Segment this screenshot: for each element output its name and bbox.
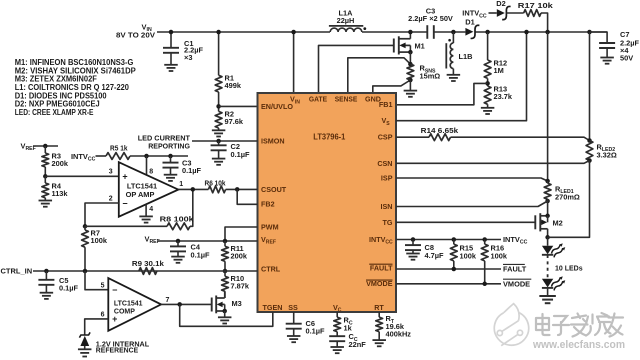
svg-text:6: 6 [101, 311, 105, 318]
svg-text:+: + [122, 172, 127, 182]
svg-text:INTVCC: INTVCC [503, 235, 528, 246]
svg-text:R14 6.65k: R14 6.65k [421, 126, 459, 135]
svg-text:R17 10k: R17 10k [518, 1, 554, 10]
svg-text:VREF: VREF [21, 142, 36, 153]
svg-text:100k: 100k [491, 251, 508, 260]
svg-text:0.1µF: 0.1µF [231, 150, 251, 159]
svg-text:15mΩ: 15mΩ [420, 72, 441, 81]
svg-text:EN/UVLO: EN/UVLO [261, 102, 293, 111]
svg-text:CSP: CSP [378, 133, 393, 142]
svg-text:2: 2 [109, 196, 113, 203]
svg-text:ISN: ISN [381, 202, 393, 211]
svg-text:2.2µF ×2 50V: 2.2µF ×2 50V [408, 14, 453, 23]
svg-text:VREF: VREF [145, 234, 160, 245]
svg-text:0.1µF: 0.1µF [182, 166, 202, 175]
svg-text:1: 1 [179, 181, 183, 188]
svg-text:100k: 100k [460, 251, 477, 260]
svg-text:R8 100k: R8 100k [160, 214, 195, 223]
svg-text:FAULT: FAULT [370, 264, 393, 273]
svg-text:GATE: GATE [309, 95, 327, 104]
svg-text:LED: CREE XLAMP XR-E: LED: CREE XLAMP XR-E [15, 108, 94, 117]
svg-text:REPORTING: REPORTING [148, 141, 190, 150]
svg-text:4: 4 [149, 206, 153, 213]
svg-text:3.32Ω: 3.32Ω [597, 150, 617, 159]
svg-text:10 LEDs: 10 LEDs [555, 266, 583, 273]
svg-text:OP AMP: OP AMP [126, 190, 155, 199]
svg-text:PWM: PWM [261, 222, 279, 231]
svg-text:www.elecfans.com: www.elecfans.com [532, 339, 625, 351]
svg-text:M2: M2 [553, 218, 563, 227]
svg-text:97.6k: 97.6k [225, 117, 244, 126]
svg-text:SS: SS [288, 303, 298, 312]
svg-text:4.7µF: 4.7µF [425, 251, 445, 260]
svg-text:50V: 50V [620, 54, 633, 63]
svg-text:TGEN: TGEN [263, 303, 283, 312]
svg-text:−: − [122, 198, 127, 208]
svg-text:VMODE: VMODE [503, 279, 530, 288]
svg-text:ISP: ISP [381, 174, 393, 183]
svg-text:INTVCC: INTVCC [71, 152, 96, 163]
svg-text:−: − [112, 285, 117, 295]
svg-text:200k: 200k [231, 252, 248, 261]
svg-text:COMP: COMP [114, 309, 135, 316]
svg-text:1k: 1k [344, 323, 353, 332]
svg-text:200k: 200k [52, 159, 69, 168]
svg-text:23.7k: 23.7k [494, 92, 513, 101]
svg-text:270mΩ: 270mΩ [555, 193, 580, 202]
svg-text:0.1µF: 0.1µF [59, 284, 79, 293]
svg-text:8: 8 [149, 169, 153, 176]
svg-text:1M: 1M [494, 66, 504, 75]
svg-text:RT: RT [374, 303, 384, 312]
svg-text:7: 7 [166, 297, 170, 304]
svg-text:CSOUT: CSOUT [261, 185, 287, 194]
svg-text:REFERENCE: REFERENCE [96, 346, 139, 355]
svg-text:R9 30.1k: R9 30.1k [132, 259, 165, 268]
svg-text:LT3796-1: LT3796-1 [313, 132, 345, 142]
svg-text:FB2: FB2 [261, 200, 275, 209]
svg-text:8V TO 20V: 8V TO 20V [116, 31, 155, 40]
svg-text:R6 10k: R6 10k [205, 178, 227, 187]
svg-text:0.1µF: 0.1µF [306, 327, 326, 336]
svg-text:FB1: FB1 [379, 100, 393, 109]
svg-text:ISMON: ISMON [261, 136, 285, 145]
svg-text:M1: M1 [415, 42, 425, 51]
svg-text:FAULT: FAULT [503, 265, 527, 274]
svg-text:0.1µF: 0.1µF [191, 250, 211, 259]
svg-text:3: 3 [109, 168, 113, 175]
svg-text:CTRL: CTRL [261, 265, 281, 274]
svg-text:22nF: 22nF [349, 340, 367, 349]
svg-text:499k: 499k [225, 81, 242, 90]
svg-text:100k: 100k [91, 236, 108, 245]
svg-text:113k: 113k [52, 189, 69, 198]
svg-text:SENSE: SENSE [335, 95, 358, 104]
svg-text:L1B: L1B [459, 52, 473, 61]
svg-text:D2: D2 [496, 0, 505, 8]
svg-text:LTC1541: LTC1541 [114, 300, 143, 307]
svg-text:CTRL_IN: CTRL_IN [1, 266, 33, 275]
svg-text:TG: TG [383, 218, 393, 227]
svg-text:400kHz: 400kHz [386, 330, 412, 339]
svg-text:R5 1k: R5 1k [110, 144, 128, 153]
svg-text:D1: D1 [465, 18, 474, 27]
svg-text:M3: M3 [232, 299, 242, 308]
svg-text:22µH: 22µH [337, 16, 355, 25]
svg-text:×3: ×3 [184, 53, 192, 62]
svg-text:7.87k: 7.87k [231, 282, 250, 291]
svg-text:CSN: CSN [377, 159, 392, 168]
svg-text:5: 5 [101, 283, 105, 290]
